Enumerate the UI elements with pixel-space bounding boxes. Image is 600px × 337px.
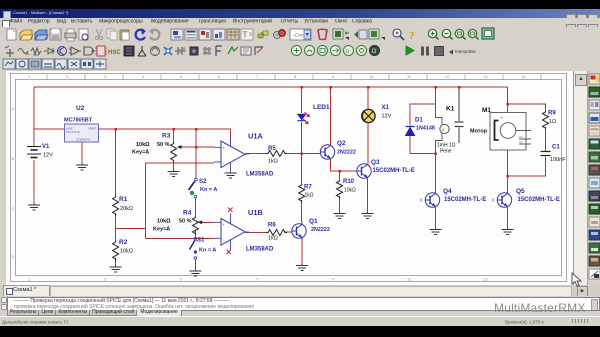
- svg-text:R2: R2: [119, 239, 128, 246]
- wire U2 output rail to U1A V+: [99, 129, 231, 141]
- svg-text:20kΩ: 20kΩ: [120, 206, 133, 212]
- svg-text:50 %: 50 %: [157, 142, 170, 148]
- op-amp U1A: [214, 136, 249, 172]
- wire U2 ground pin: [81, 142, 83, 163]
- svg-text:C: C: [12, 206, 15, 211]
- svg-text:LM358AD: LM358AD: [246, 172, 274, 178]
- svg-text:10: 10: [369, 74, 374, 79]
- vertical scrollbar: [573, 71, 587, 285]
- right component bin strip: [587, 71, 600, 285]
- wire vertical rail to S2: [195, 129, 197, 178]
- svg-text:LM358AD: LM358AD: [246, 247, 274, 253]
- wire motor bottom to Q5 collector: [507, 150, 509, 193]
- wire U1A minus input: [145, 162, 214, 164]
- svg-text:M1: M1: [482, 107, 491, 114]
- svg-text:Q5: Q5: [516, 188, 525, 195]
- svg-text:Kn = A: Kn = A: [200, 187, 217, 193]
- wire battery bottom to ground: [33, 160, 35, 203]
- ground under Q5: [502, 228, 514, 235]
- svg-text:12V: 12V: [43, 153, 53, 159]
- diode D1: [406, 124, 415, 138]
- sheet background: [6, 71, 584, 285]
- wire divider node horizontal: [116, 228, 146, 230]
- svg-text:15C02MH-TL-E: 15C02MH-TL-E: [518, 197, 560, 203]
- ground under R2: [110, 265, 122, 272]
- wire R5 to node A: [285, 153, 321, 155]
- resistor R5: [266, 151, 287, 157]
- ERC marker above U1B: [228, 208, 233, 213]
- svg-text:15C02MH-TL-E: 15C02MH-TL-E: [373, 168, 415, 174]
- svg-text:o: o: [346, 48, 350, 55]
- wire Q5 emitter to ground: [507, 207, 509, 228]
- wire Q2 emitter to R10 and Q3 base: [331, 159, 357, 171]
- svg-text:10kΩ: 10kΩ: [120, 249, 133, 255]
- svg-text:2N2222: 2N2222: [337, 150, 356, 156]
- ERC marker below U1B: [227, 250, 232, 255]
- wire node A to R7: [301, 154, 303, 185]
- svg-text:K1: K1: [446, 106, 455, 113]
- relay contact K1: [455, 88, 464, 143]
- resistor R1: [113, 195, 119, 216]
- svg-text:+: +: [501, 116, 504, 121]
- wire V1 to U2 input: [34, 128, 65, 130]
- svg-text:14: 14: [521, 74, 526, 79]
- svg-text:A: A: [12, 106, 15, 111]
- wire divider node down to U1B: [144, 163, 146, 239]
- potentiometer R3: [171, 142, 183, 162]
- svg-text:13: 13: [483, 74, 488, 79]
- transistor Q4: [421, 193, 440, 207]
- svg-text:1kΩ: 1kΩ: [268, 236, 278, 242]
- wire S2 bottom to R4 top: [194, 198, 196, 217]
- capacitor C1: [541, 152, 551, 156]
- switch S2: [189, 178, 198, 198]
- svg-text:10kΩ: 10kΩ: [344, 188, 356, 194]
- svg-text:15C02MH-TL-E: 15C02MH-TL-E: [444, 197, 486, 203]
- lamp X1: [361, 109, 375, 122]
- resistor R6: [266, 230, 287, 236]
- voltage regulator U2: [65, 124, 99, 142]
- svg-text:50 %: 50 %: [179, 219, 192, 225]
- svg-text:MC7805BT: MC7805BT: [64, 118, 93, 124]
- svg-text:R9: R9: [548, 111, 556, 117]
- svg-text:Q2: Q2: [337, 140, 346, 147]
- svg-text:Q1: Q1: [309, 218, 318, 225]
- ground under Q1: [296, 264, 308, 271]
- transistor Q3: [357, 164, 372, 178]
- svg-text:Ω: Ω: [372, 48, 377, 55]
- wire R1 top: [115, 129, 117, 195]
- sheet border inner: [16, 80, 562, 276]
- svg-text:12V: 12V: [382, 114, 392, 120]
- ground under R3: [168, 170, 180, 177]
- ground under Q4: [430, 228, 442, 235]
- wire Q1 emitter to ground: [301, 239, 303, 265]
- wire R7 to Q1 collector: [301, 200, 303, 222]
- svg-text:Kn = A: Kn = A: [199, 248, 216, 254]
- svg-text:1kΩ: 1kΩ: [268, 159, 278, 165]
- wire relay loop to Q4 collector: [435, 154, 437, 194]
- resistor R7: [299, 184, 305, 202]
- ground under U2: [76, 163, 88, 170]
- wire U1B output to R6: [245, 232, 266, 234]
- ground under Q3: [362, 212, 374, 219]
- svg-text:10kΩ: 10kΩ: [136, 142, 150, 148]
- svg-text:Мотор: Мотор: [470, 129, 488, 135]
- wire LED column from bus: [301, 87, 303, 113]
- svg-text:Q4: Q4: [443, 188, 452, 195]
- svg-text:R10: R10: [343, 179, 355, 185]
- wire Q2 collector to bus: [330, 87, 332, 145]
- relay coil K1: [436, 118, 450, 141]
- svg-text:LED1: LED1: [313, 104, 330, 111]
- wire R3 bottom to ground: [173, 161, 175, 170]
- wire relay loop rectangle: [410, 104, 436, 124]
- potentiometer R4: [192, 217, 203, 235]
- wire top supply bus: [34, 86, 508, 88]
- transistor Q2: [320, 145, 334, 159]
- wire lamp column from bus: [367, 87, 369, 110]
- svg-text:X1: X1: [382, 105, 390, 111]
- wire R9 to C1: [545, 127, 547, 151]
- svg-text:HSC: HSC: [108, 50, 121, 56]
- svg-text:R4: R4: [183, 210, 192, 217]
- ground under R10: [334, 212, 346, 219]
- wire R3 top: [173, 129, 175, 142]
- wire U1A output to R5: [245, 153, 266, 155]
- svg-text:1kΩ: 1kΩ: [305, 193, 314, 199]
- svg-text:S1: S1: [197, 238, 205, 244]
- switch S1: [190, 238, 197, 259]
- svg-text:100nF: 100nF: [550, 157, 566, 163]
- wire R4 bottom to minus line: [194, 230, 196, 239]
- wire LED cathode to node A: [301, 122, 303, 154]
- wire S1 bottom to ground: [194, 259, 196, 269]
- svg-text:0: 0: [183, 46, 186, 51]
- wire R1 bottom to node: [115, 213, 117, 229]
- svg-text:2N2222: 2N2222: [311, 227, 330, 233]
- ground under S1: [189, 270, 201, 277]
- wire R10 top stub: [339, 171, 341, 180]
- LED LED1: [297, 112, 310, 124]
- svg-text:B: B: [12, 156, 15, 161]
- svg-text:U2: U2: [76, 105, 85, 112]
- svg-text:1N4148: 1N4148: [416, 126, 435, 132]
- svg-text:V1: V1: [42, 144, 50, 150]
- svg-text:R1: R1: [119, 196, 128, 203]
- wire R2 top: [115, 229, 117, 240]
- wire C1 bottom to motor-Q5 node: [508, 157, 546, 177]
- ground under V1: [28, 203, 40, 210]
- svg-text:S2: S2: [519, 140, 523, 144]
- wire V1 column from bus to battery: [33, 87, 35, 146]
- svg-text:?: ?: [409, 30, 415, 42]
- motor M1: [490, 113, 531, 151]
- svg-text:VOLTAGE: VOLTAGE: [66, 130, 80, 134]
- op-amp U1B: [214, 214, 249, 250]
- wire R4 wiper to U1B plus input: [202, 221, 214, 223]
- wire lamp to Q3 collector: [367, 123, 369, 165]
- svg-text:T: T: [243, 31, 248, 40]
- svg-text:C1: C1: [552, 145, 560, 151]
- wire bus corner down to motor: [507, 87, 509, 112]
- svg-text:13: 13: [483, 277, 488, 282]
- svg-text:R7: R7: [304, 185, 312, 191]
- svg-text:Interactive: Interactive: [455, 49, 476, 54]
- ruler tick numbers top: [28, 74, 526, 79]
- wire Q4 emitter to ground: [435, 207, 437, 228]
- wire motor node to R9: [508, 104, 546, 111]
- battery V1: [27, 147, 41, 158]
- svg-text:Key=A: Key=A: [132, 150, 149, 156]
- transistor Q5: [493, 193, 512, 207]
- svg-text:R5: R5: [268, 146, 276, 152]
- svg-text:12: 12: [445, 74, 450, 79]
- ground under U1A: [225, 172, 237, 178]
- wire Q3 emitter to ground: [367, 178, 369, 212]
- wire R3 wiper to U1A plus input: [178, 146, 214, 148]
- sheet border outer: [11, 74, 567, 282]
- svg-text:10kΩ: 10kΩ: [157, 219, 171, 225]
- svg-text:Key=A: Key=A: [153, 227, 170, 233]
- svg-text:S1: S1: [519, 135, 523, 139]
- wire U1B minus input: [145, 237, 214, 239]
- svg-text:S2: S2: [199, 179, 207, 185]
- svg-text:U1A: U1A: [248, 132, 263, 141]
- svg-text:D1: D1: [415, 118, 423, 124]
- svg-text:VREG: VREG: [88, 127, 97, 131]
- wire bus to relay loop: [435, 87, 437, 104]
- wire R6 to Q1 base: [285, 231, 292, 233]
- svg-text:Q3: Q3: [371, 159, 380, 166]
- svg-text:COMMON: COMMON: [76, 138, 90, 142]
- svg-text:Реле: Реле: [440, 149, 452, 155]
- svg-text:R6: R6: [268, 223, 276, 229]
- svg-text:D: D: [12, 254, 15, 259]
- wire R2 bottom to ground: [115, 258, 117, 265]
- transistor Q1: [292, 222, 306, 240]
- mouse cursor: [571, 272, 583, 293]
- svg-text:R3: R3: [162, 133, 171, 140]
- wire R10 bottom to ground: [339, 196, 341, 212]
- resistor R9: [543, 111, 549, 129]
- svg-text:U1B: U1B: [248, 208, 263, 217]
- resistor R2: [113, 240, 119, 261]
- resistor R10: [337, 180, 343, 198]
- svg-text:1Ω: 1Ω: [549, 119, 556, 125]
